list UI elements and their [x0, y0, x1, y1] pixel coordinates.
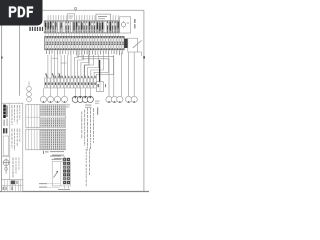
sheet mark (right border) [143, 56, 145, 58]
field wire from panel (left) [19, 25, 21, 96]
drop wire D2 [50, 88, 52, 96]
splice bead S1 [27, 86, 32, 91]
label right of relay box [134, 19, 135, 28]
wire W7 [67, 55, 69, 78]
wire W8a [52, 57, 58, 59]
inner divider of detail box [60, 162, 62, 186]
wire W16 [97, 55, 114, 78]
drop wire D6 [79, 88, 81, 96]
note line 5 [80, 112, 83, 139]
label PANEL [58, 188, 70, 191]
wire W18 [82, 50, 109, 96]
drop wire D7 [84, 88, 86, 96]
core label C1-4 [66, 105, 70, 108]
terminal strip TB1 [44, 21, 119, 33]
label SHIELD [39, 182, 47, 185]
wire W4 [57, 55, 59, 78]
sheet centering mark (top border) [74, 7, 76, 11]
shielded drain wire (heavy) [99, 60, 101, 82]
panel detail outline [52, 162, 70, 186]
leader lines below detail [47, 184, 68, 189]
note line 2 [89, 108, 92, 149]
title block outline [2, 103, 23, 191]
drop wire D3 [57, 88, 59, 96]
strip TB1 darker entries overlay [45, 22, 119, 33]
drawing number (rotated, dark) [3, 128, 7, 133]
panel terminal strip (dark cells) [63, 157, 71, 186]
terminal schedule table (upper) [26, 105, 66, 128]
cable core C3-2 [111, 96, 117, 102]
divider line title block [2, 155, 10, 157]
cable entry arrow [54, 171, 59, 178]
fuse terminal row FT1..FT16 [44, 78, 96, 88]
company logo (rotated, bold) [3, 105, 7, 126]
note line 7 (lower) [88, 149, 91, 177]
note line 3 [86, 108, 89, 151]
cable core C1-4 [61, 96, 67, 102]
core labels C2 group [85, 105, 92, 108]
wire W10 [78, 55, 84, 78]
cable core C2-1 [72, 96, 78, 102]
drop wire D4 [64, 88, 66, 96]
cable core C1-2 [47, 96, 53, 102]
sheet mark (left border) [1, 57, 3, 59]
drop wire D5 [74, 88, 76, 96]
wire W14 [91, 55, 104, 78]
terminal block pair (right) [96, 82, 103, 92]
wire W8b [61, 62, 67, 64]
crimp lug marks above terminals [45, 73, 95, 78]
wire W21 [133, 52, 135, 96]
splice bead S2 [27, 92, 32, 97]
cable core C1-1 [40, 96, 46, 102]
relay box K1 [120, 17, 131, 33]
wire W20 [128, 52, 130, 96]
detail labels top with leaders [50, 156, 64, 162]
cable core C2-4 [87, 96, 93, 102]
wire W8 [70, 55, 72, 78]
core labels C3 group [95, 101, 100, 104]
label right of terminal pair [105, 84, 106, 87]
cable core C4-2 [131, 96, 137, 102]
wire W19 [121, 52, 123, 96]
wire-number labels above terminal strip TB1 [47, 14, 119, 21]
wire number tags below TB2 [46, 50, 122, 55]
title text column 2 (rotated) [12, 129, 21, 151]
wire W1 [47, 55, 49, 78]
cable core C3-1 [106, 96, 112, 102]
approval empty box [3, 136, 8, 156]
wire W11 [81, 55, 89, 78]
cable core C2-3 [82, 96, 88, 102]
PDF badge overlay [0, 0, 43, 26]
notes heading [97, 107, 98, 115]
legend text lines [50, 151, 64, 159]
note line 6 (lower) [85, 149, 88, 188]
title text column 3 (rotated) [13, 158, 20, 178]
note line 4 [83, 110, 86, 147]
dark wire tags left of TB1 (below badge) [29, 26, 45, 31]
wire W3 [54, 55, 56, 78]
revision table (rotated) [2, 180, 23, 192]
title text column (rotated) [12, 105, 21, 125]
registration symbol [3, 159, 10, 174]
splice label box [15, 103, 19, 109]
note line 1 [92, 108, 95, 143]
drop wire D1 [43, 88, 45, 96]
connector stubs TB1 to TB2 [46, 33, 119, 36]
dark end block of TB2 [124, 39, 128, 48]
splice bead S3 [27, 97, 32, 102]
wire W15 [94, 55, 108, 78]
label box FACP [96, 14, 111, 21]
wire W5 [60, 55, 62, 78]
terminal strip TB2 [45, 36, 125, 49]
F-2 mark [43, 151, 49, 154]
wire W2 [50, 55, 52, 78]
isolator switch box [128, 38, 142, 56]
splice chain wire [28, 82, 30, 98]
wire W9 [74, 55, 78, 78]
cable core C2-2 [77, 96, 83, 102]
terminal schedule table (lower) [26, 129, 66, 150]
drop wire D8 [89, 88, 91, 96]
wire W16a [85, 50, 89, 78]
label C-POWER [39, 186, 47, 189]
cable core C3-3 [117, 96, 123, 102]
label box TB33 above strip [67, 14, 74, 21]
wire W17 [77, 50, 114, 96]
wire W12 [84, 55, 93, 78]
cable core C1-3 [54, 96, 60, 102]
cable core C4-1 [126, 96, 132, 102]
wire W6 [63, 55, 65, 78]
wire W13 [88, 55, 99, 78]
